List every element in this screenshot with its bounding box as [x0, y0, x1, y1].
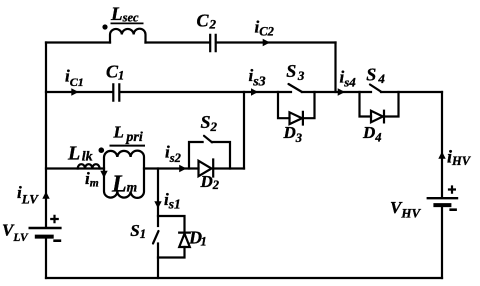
transformer Lpri/Lm loop [104, 151, 144, 198]
arrow is1 [154, 201, 161, 208]
wire row2 right segment [381, 91, 442, 93]
wire row3 loop to D2 [144, 167, 199, 169]
svg-text:iC2: iC2 [255, 18, 274, 39]
wire row2 segment S3 to S4 [302, 91, 371, 93]
label plus VLV [50, 215, 59, 224]
svg-text:VLV: VLV [2, 221, 29, 245]
switch S2 loop right wire [212, 142, 230, 169]
svg-text:D3: D3 [283, 123, 303, 145]
diode D4 loop right wire [384, 92, 399, 117]
svg-text:Lpri: Lpri [113, 123, 143, 146]
diode D4 [371, 111, 384, 123]
wire row3 left segment [46, 167, 104, 169]
battery VLV short plate [37, 235, 52, 239]
diode D1 [179, 233, 190, 247]
capacitor C1 [113, 84, 119, 100]
svg-text:Lm: Lm [111, 172, 137, 198]
battery VHV long plate [428, 197, 457, 199]
wire left vertical rail (top part) [45, 43, 47, 227]
arrow is4 [338, 88, 345, 95]
svg-text:iHV: iHV [447, 147, 472, 169]
wire top rail right segment [217, 41, 336, 43]
wire row2 middle segment to S3 [120, 91, 291, 93]
arrow is2 [179, 165, 186, 172]
svg-text:D4: D4 [362, 123, 382, 145]
label plus VHV [448, 185, 456, 193]
svg-text:is3: is3 [249, 66, 266, 90]
diode D4 loop left wire [360, 92, 372, 117]
wire bottom rail [46, 277, 442, 279]
svg-text:S2: S2 [201, 112, 218, 134]
diode D3 [290, 112, 303, 125]
arrow iC2 [263, 39, 270, 46]
battery VHV short plate [435, 203, 449, 207]
switch S1 blade [153, 231, 159, 244]
svg-text:im: im [85, 169, 99, 190]
arrow iHV [438, 152, 445, 159]
svg-text:iC1: iC1 [65, 67, 84, 90]
svg-text:S4: S4 [366, 65, 385, 87]
label Lpri underline [110, 145, 146, 147]
wire row2 left segment [46, 91, 112, 93]
wire row3 D2 to drop [214, 167, 244, 169]
wire right vertical rail (top part) [441, 92, 443, 197]
wire D1 branch top [158, 216, 185, 232]
svg-text:Llk: Llk [67, 143, 93, 165]
wire right vertical rail (bottom part) [441, 207, 443, 278]
diode D3 loop right wire [303, 92, 315, 118]
wire top rail left segment [46, 41, 110, 43]
svg-text:Lsec: Lsec [110, 4, 139, 25]
svg-text:D2: D2 [200, 172, 220, 192]
diode D2 [199, 160, 214, 177]
arrow is3 [251, 88, 258, 95]
inductor Lsec [110, 29, 146, 43]
switch S2 blade [204, 136, 212, 143]
arrow im [100, 171, 107, 178]
svg-text:iLV: iLV [17, 183, 39, 207]
switch S4 blade [370, 85, 382, 93]
wire left vertical rail (bottom part) [45, 239, 47, 278]
capacitor C2 [210, 35, 216, 51]
battery VLV long plate [30, 227, 61, 229]
switch S2 loop left wire [189, 142, 203, 169]
label Lsec underline [111, 22, 144, 24]
arrow iC1 [71, 88, 78, 95]
svg-text:D1: D1 [188, 228, 207, 249]
svg-text:is2: is2 [165, 143, 181, 166]
svg-text:C2: C2 [197, 11, 217, 32]
wire s1 drop lower [157, 244, 159, 279]
inductor Llk [78, 164, 100, 168]
polarity dot Lpri [99, 147, 105, 153]
arrow iLV [42, 192, 49, 199]
svg-text:C1: C1 [106, 62, 124, 83]
wire drop row2 to row3 [243, 92, 245, 169]
wire D1 branch bottom [158, 247, 185, 258]
svg-text:S3: S3 [286, 61, 305, 83]
wire drop from top rail to row2 [334, 43, 336, 93]
svg-text:VHV: VHV [390, 198, 421, 221]
diode D3 loop left wire [278, 92, 290, 118]
label minus VHV [449, 208, 457, 211]
wire s1 drop upper [157, 169, 159, 227]
svg-text:is4: is4 [340, 68, 357, 90]
switch S3 blade [289, 84, 303, 92]
svg-text:is1: is1 [164, 190, 181, 212]
wire top rail middle segment [146, 41, 210, 43]
svg-text:S1: S1 [130, 221, 146, 241]
label minus VLV [53, 239, 61, 242]
polarity dot Lsec [102, 24, 107, 29]
